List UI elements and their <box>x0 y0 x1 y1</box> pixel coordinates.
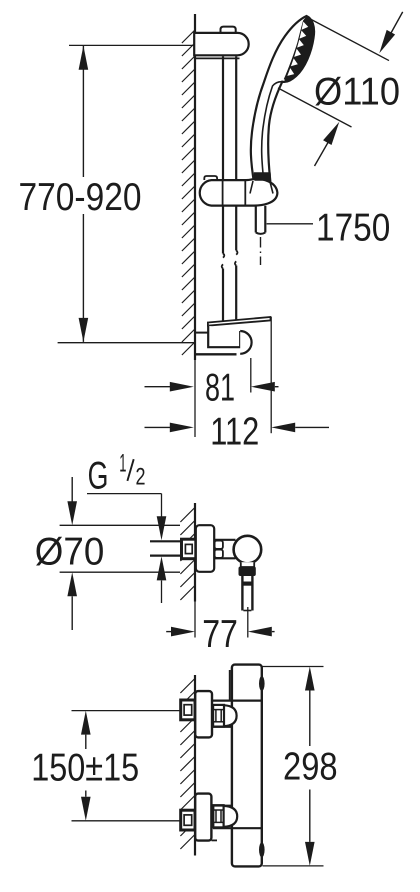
dim 112 <box>270 317 272 433</box>
shower rail upper segment <box>222 56 224 180</box>
union nut top <box>213 705 224 727</box>
wall (top drawing) <box>194 14 196 360</box>
knob neck <box>241 562 254 567</box>
G 1/2 leader with arrow <box>87 493 162 495</box>
svg-text:Ø70: Ø70 <box>35 530 105 573</box>
svg-text:1: 1 <box>119 450 126 478</box>
hand shower wand <box>251 16 314 183</box>
dim Ø110 extension lines <box>308 18 390 61</box>
wall hatching (top) <box>182 31 195 44</box>
svg-text:1750: 1750 <box>316 206 390 249</box>
svg-text:81: 81 <box>205 366 235 409</box>
glide slider / shower holder <box>200 179 278 206</box>
supply centreline bottom <box>72 820 181 822</box>
glide slider clamp tab <box>204 176 217 180</box>
svg-text:150±15: 150±15 <box>31 747 139 790</box>
dome top <box>224 705 237 726</box>
supply union nut (middle) <box>182 539 196 559</box>
svg-text:G: G <box>88 454 109 497</box>
dimension 770-920 <box>82 46 84 177</box>
body button marks <box>259 676 265 691</box>
supply pipe (middle) <box>150 540 182 542</box>
Ø110 arrows <box>391 12 403 33</box>
wand inner contour line <box>262 82 283 183</box>
dim 298 extension lines <box>262 666 324 668</box>
bottom holder body <box>208 326 240 348</box>
hex nut bottom <box>181 810 195 830</box>
top bracket cap <box>221 27 236 33</box>
shower hose stub <box>255 206 257 233</box>
svg-text:2: 2 <box>136 464 146 491</box>
escutcheon top <box>195 691 212 737</box>
dim 150±15 <box>81 711 91 735</box>
dim 77 <box>247 607 249 638</box>
svg-text:77: 77 <box>202 613 238 656</box>
G 1/2 opposing arrow <box>157 556 167 580</box>
hose continuation centreline (dash-dot) <box>260 237 262 248</box>
holder cone lines <box>250 181 253 194</box>
shower rail lower segment with pipe break <box>222 206 224 254</box>
svg-text:770-920: 770-920 <box>19 176 142 219</box>
holder front bulge <box>240 331 251 354</box>
escutcheon bottom <box>195 794 211 841</box>
union nut bottom <box>213 805 223 827</box>
lever pivot (dark) <box>239 567 256 577</box>
wall (middle drawing) <box>194 503 196 602</box>
extension line at top bracket centre <box>69 44 194 46</box>
svg-text:112: 112 <box>210 410 259 453</box>
wall (bottom drawing) <box>194 675 196 856</box>
lever stem <box>241 576 243 611</box>
leader line 1750 <box>267 223 313 225</box>
bottom holder rim plate <box>208 317 271 326</box>
holder wall arm lines <box>195 332 208 334</box>
extension line at bottom holder centre <box>58 342 194 344</box>
thermostat body <box>232 665 262 867</box>
wall bracket (top) <box>194 33 248 55</box>
dim Ø70 <box>71 477 73 503</box>
wand end dark band <box>254 172 271 181</box>
valve connector <box>214 539 235 541</box>
dome bottom <box>224 806 238 827</box>
supply centreline top <box>72 710 181 712</box>
svg-text:Ø110: Ø110 <box>314 70 400 113</box>
wall hatching (bottom) <box>180 679 194 693</box>
mixer knob <box>234 536 262 564</box>
hex nut top <box>181 700 195 720</box>
spray face scallop band (dark) <box>284 17 313 82</box>
dim 81 <box>250 358 252 393</box>
spray face rim line <box>285 19 308 80</box>
svg-text:298: 298 <box>283 745 338 788</box>
wall hatching (middle) <box>180 508 194 522</box>
dim 298 <box>305 667 315 691</box>
escutcheon Ø70 <box>196 525 214 572</box>
